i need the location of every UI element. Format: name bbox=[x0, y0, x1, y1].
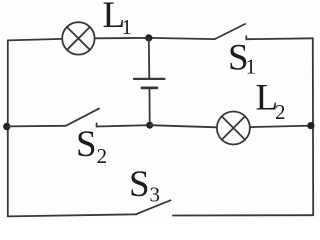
node right middle bbox=[307, 122, 314, 129]
node left middle bbox=[3, 123, 10, 130]
wire left edge bbox=[7, 40, 9, 216]
wire S1 to top right corner bbox=[246, 37, 312, 40]
label S2 bbox=[76, 124, 107, 168]
node battery middle junction bbox=[146, 122, 153, 129]
svg-text:S: S bbox=[76, 124, 97, 165]
wire L2 to right edge bbox=[250, 126, 313, 128]
wire L1 to S1 bbox=[95, 38, 215, 39]
node top junction bbox=[145, 34, 152, 41]
svg-text:3: 3 bbox=[150, 183, 161, 207]
wire right edge bbox=[312, 38, 314, 215]
svg-text:S: S bbox=[129, 164, 150, 205]
switch S2 bbox=[66, 109, 99, 127]
wire junction to L2 bbox=[150, 125, 217, 127]
label S1 bbox=[228, 38, 256, 79]
svg-text:1: 1 bbox=[122, 15, 133, 39]
svg-text:2: 2 bbox=[275, 100, 286, 124]
label L1 bbox=[103, 0, 133, 39]
lamp L1 bbox=[62, 22, 94, 54]
switch S3 bbox=[137, 200, 170, 213]
wire bottom left (to S3) bbox=[8, 214, 137, 216]
lamp L2 bbox=[217, 112, 250, 145]
svg-text:2: 2 bbox=[97, 144, 108, 168]
wire S3 to bottom right corner bbox=[173, 214, 313, 216]
wire top left (to L1) bbox=[8, 39, 62, 41]
label S3 bbox=[129, 164, 160, 207]
battery B1 bbox=[134, 79, 165, 88]
wire left to S2 bbox=[8, 125, 66, 128]
wire S2 to battery junction bbox=[97, 125, 150, 126]
battery wire bottom bbox=[149, 88, 151, 125]
svg-text:1: 1 bbox=[246, 55, 257, 79]
switch S1 bbox=[215, 24, 246, 39]
label L2 bbox=[256, 78, 286, 125]
battery wire top bbox=[148, 38, 151, 78]
